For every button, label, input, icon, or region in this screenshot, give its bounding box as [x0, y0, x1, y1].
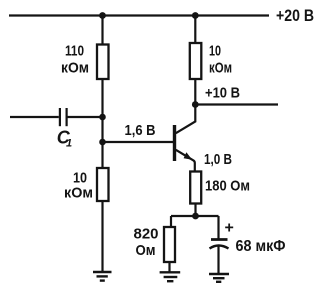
- resistor R2 10 kOhm body: [97, 168, 109, 201]
- svg-text:1: 1: [66, 138, 72, 150]
- capacitor C1 right plate: [65, 108, 67, 126]
- svg-text:110: 110: [65, 43, 84, 60]
- transistor Q1 emitter lead: [176, 150, 195, 172]
- wire: output line from collector: [195, 103, 278, 105]
- wire: down to C2 top plate: [217, 216, 219, 240]
- wire: R3 bottom to collector node: [194, 79, 196, 105]
- svg-text:1,6 В: 1,6 В: [125, 122, 156, 139]
- svg-text:68 мкФ: 68 мкФ: [236, 238, 286, 255]
- wire: C2 to ground: [217, 247, 219, 274]
- svg-text:1,0 В: 1,0 В: [204, 151, 232, 168]
- wire: R5 bottom to ground: [168, 262, 170, 272]
- svg-text:820: 820: [134, 226, 159, 243]
- transistor Q1 base bar: [173, 125, 176, 161]
- resistor R4 180 Ohm body: [190, 172, 201, 204]
- svg-text:180 Ом: 180 Ом: [205, 178, 250, 195]
- capacitor C2 top plate: [211, 238, 228, 241]
- svg-text:+10 В: +10 В: [205, 84, 240, 101]
- wire: rail to R1 top: [101, 16, 103, 45]
- svg-text:кОм: кОм: [61, 60, 89, 77]
- resistor R5 820 Ohm body: [164, 227, 175, 262]
- svg-text:+: +: [225, 220, 234, 237]
- resistor R1 110 kOhm body: [97, 45, 109, 80]
- resistor R3 10 kOhm body: [190, 43, 202, 79]
- svg-text:кОм: кОм: [64, 184, 93, 201]
- svg-text:10: 10: [209, 43, 221, 60]
- junction node: rail / R1: [99, 12, 106, 19]
- svg-text:кОм: кОм: [209, 60, 232, 77]
- junction node: C1 / divider: [99, 114, 106, 121]
- wire: input line: [10, 116, 59, 118]
- wire: C1 to base node: [67, 116, 103, 118]
- ground under R5: [160, 272, 181, 281]
- junction node: rail / R3: [192, 12, 199, 19]
- svg-text:+20 В: +20 В: [276, 7, 314, 25]
- ground under R2: [93, 272, 112, 281]
- ground under C2: [209, 274, 229, 282]
- wire: R4 bottom to emitter node: [194, 204, 196, 217]
- wire: base of Q1: [103, 141, 175, 143]
- wire: emitter node horizontal: [171, 215, 219, 217]
- wire: R2 bottom to ground: [101, 201, 103, 272]
- wire: down to R5 top: [170, 216, 172, 227]
- transistor Q1 emitter arrow: [184, 152, 193, 159]
- capacitor C2 curved bottom plate: [210, 246, 229, 249]
- junction node: emitter bypass: [192, 213, 199, 220]
- svg-text:Ом: Ом: [136, 242, 156, 259]
- wire: rail to R3 top: [194, 16, 196, 44]
- wire: R1 bottom to base node: [101, 79, 103, 168]
- junction node: base: [99, 139, 106, 146]
- transistor Q1 collector lead: [176, 105, 196, 134]
- label: capacitor C1 designator: [57, 128, 72, 150]
- capacitor C1 left plate: [59, 108, 61, 126]
- junction node: collector output: [192, 101, 199, 108]
- wire: +20V top supply rail: [9, 14, 269, 16]
